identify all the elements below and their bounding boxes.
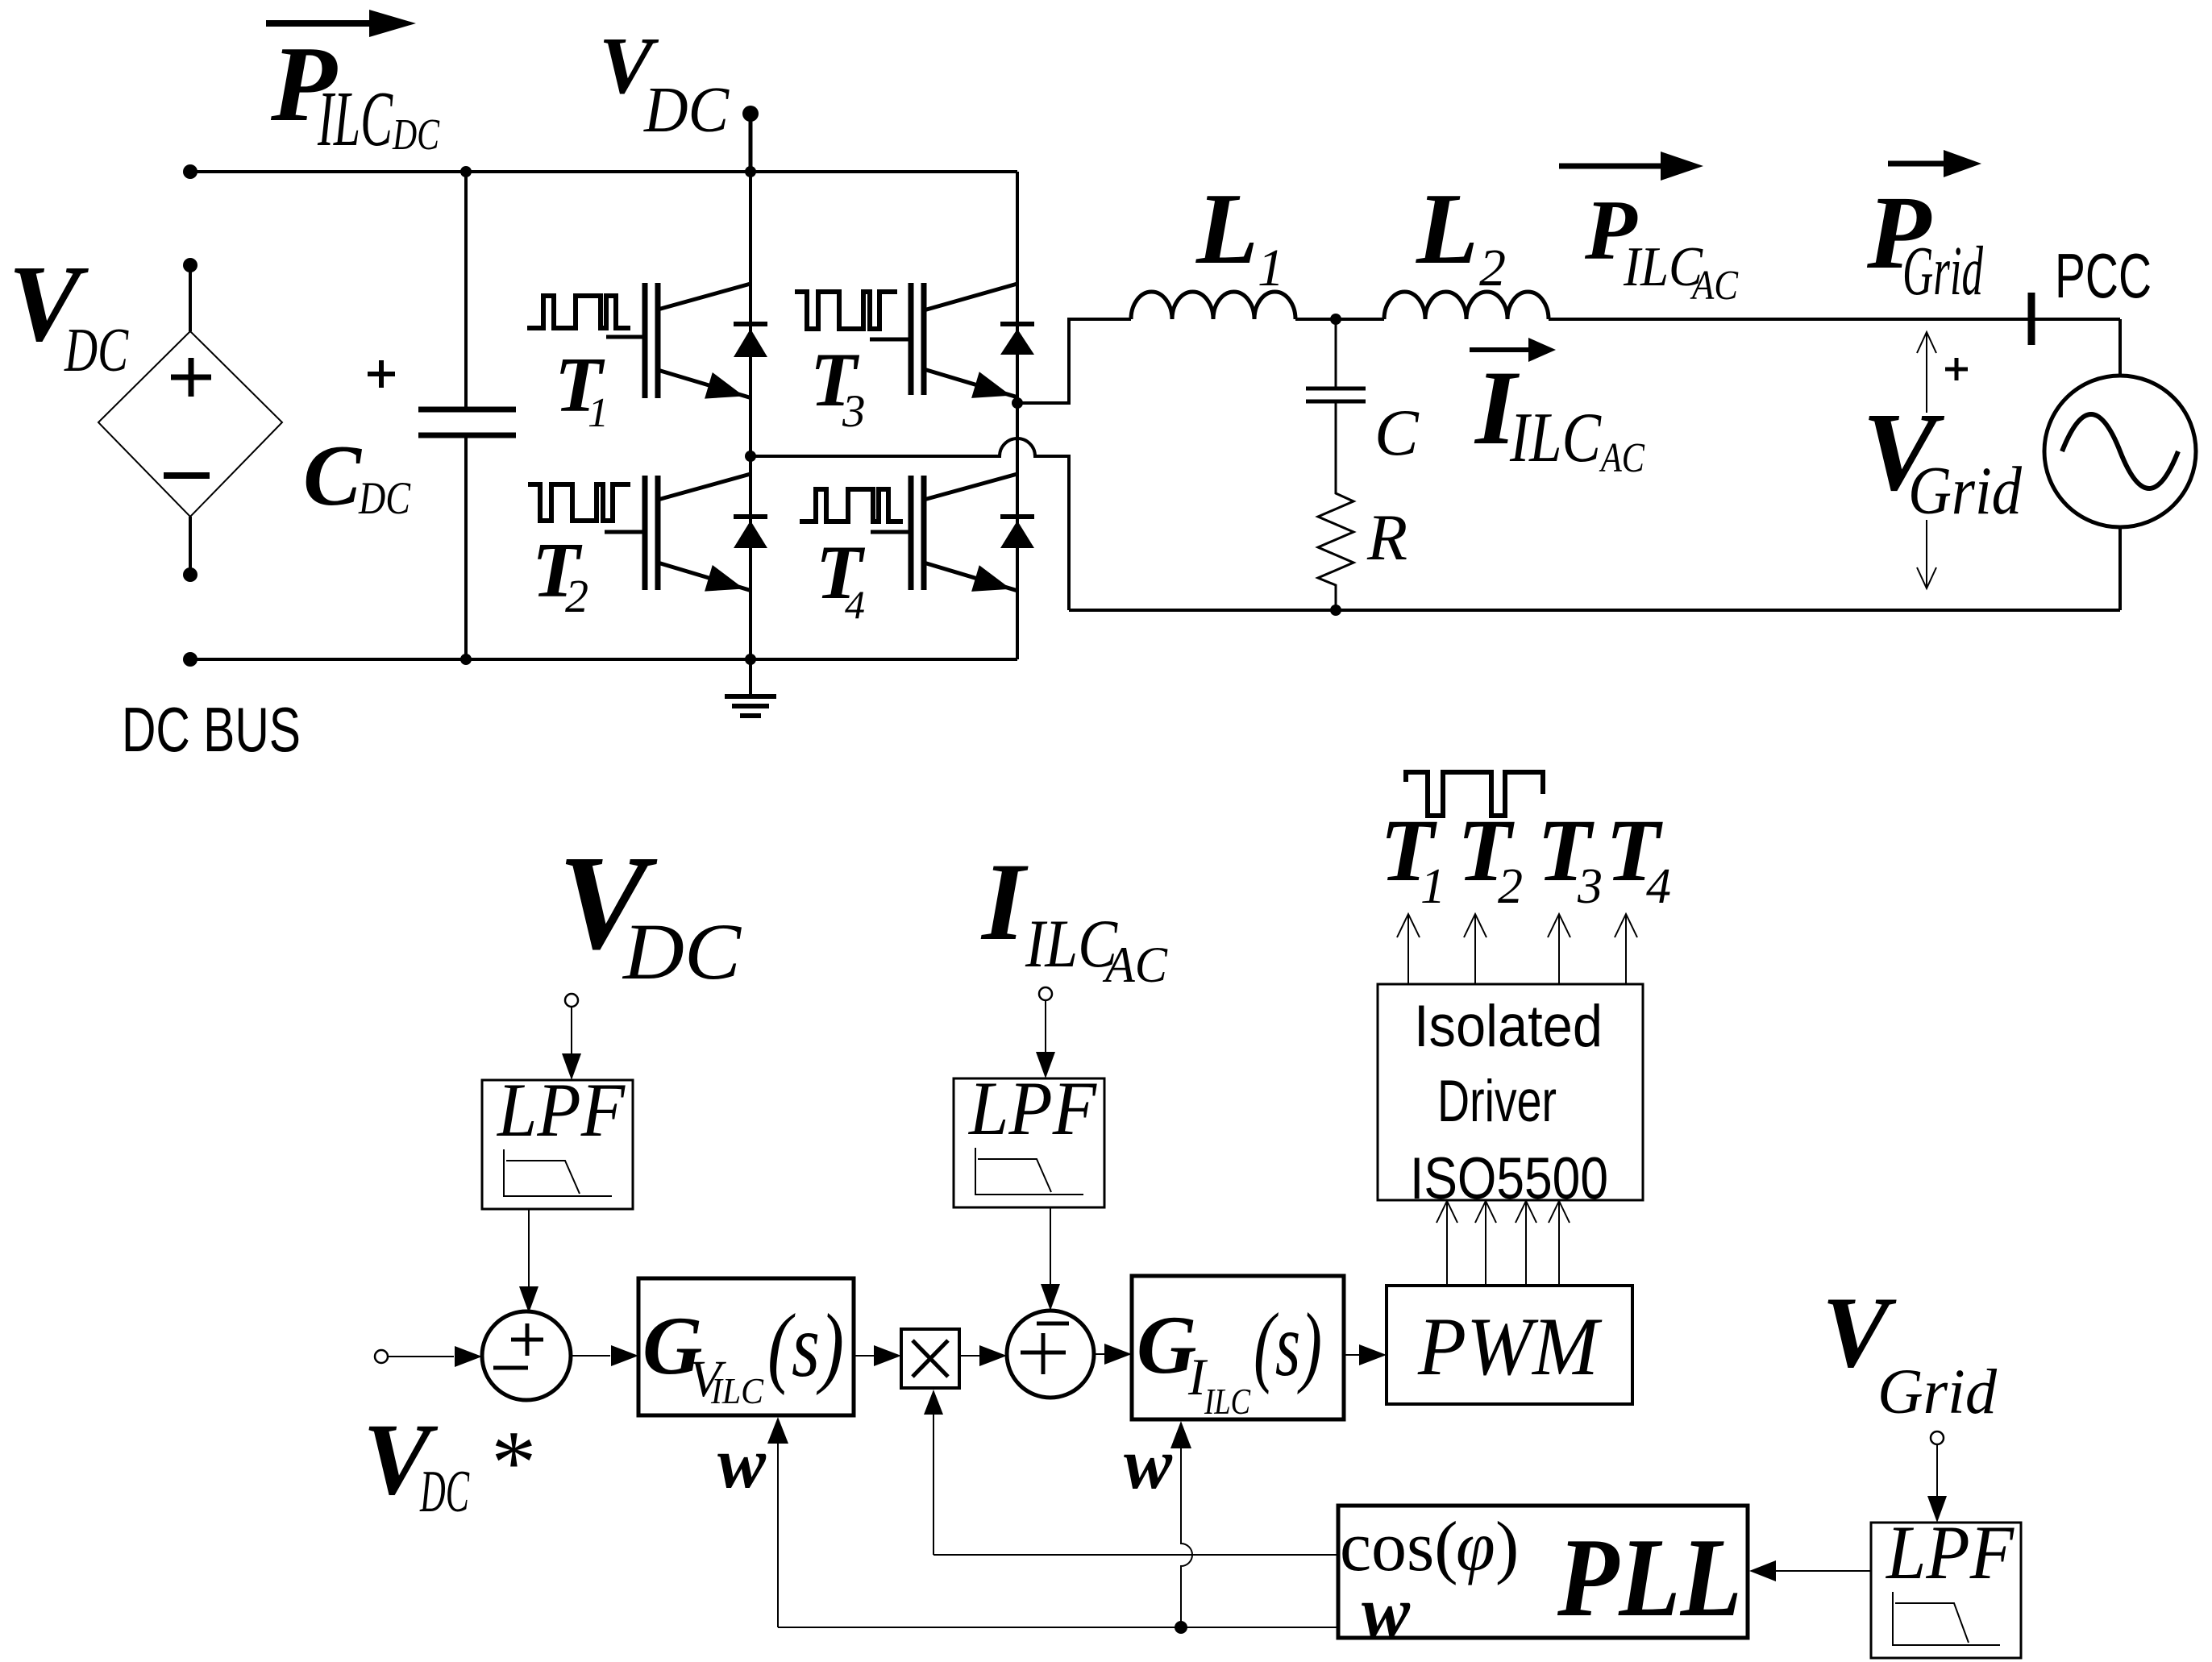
block PWM [1387,1286,1632,1404]
wire sum1 to G_VILC [571,1355,610,1357]
multiplier block (X) [901,1329,959,1388]
svg-text:ISO5500: ISO5500 [1410,1146,1608,1211]
gate pulse icon T1 [527,296,630,328]
svg-text:AC: AC [1599,435,1646,481]
svg-text:w: w [717,1423,767,1503]
svg-text:4: 4 [845,582,865,627]
svg-text:Driver: Driver [1437,1069,1557,1134]
svg-text:DC: DC [358,473,411,524]
svg-text:DC BUS: DC BUS [122,694,301,765]
svg-text:R: R [1366,501,1407,574]
I_ILC_AC arrow [1470,347,1532,352]
ground symbol [749,659,752,696]
wire bottom AC rail [1069,609,2120,612]
svg-text:Isolated: Isolated [1414,994,1603,1059]
inductor L2 [1384,292,1549,319]
svg-text:PWM: PWM [1417,1301,1603,1393]
svg-text:Grid: Grid [1877,1357,1997,1427]
diode D2 (T2 freewheel) [734,514,767,519]
wire w into G_VILC [777,1443,779,1627]
inductor L1 [1131,292,1295,319]
gate pulse icon T4 [800,489,903,521]
wire LPF2 to sum2 [1050,1207,1051,1296]
svg-text:2: 2 [565,570,588,622]
wire V_Grid sense to LPF3 [1936,1444,1938,1496]
gate pulse icon T3 [795,292,897,329]
resistor R (damping) [1318,485,1353,610]
svg-text:Grid: Grid [1908,453,2022,529]
node V_DC terminal [742,106,759,122]
svg-text:LPF: LPF [496,1067,626,1153]
node V_DC sense terminal [565,994,578,1007]
svg-text:1: 1 [1420,859,1445,914]
node V_Grid sense terminal [1931,1431,1944,1444]
wire I sense to LPF2 [1045,1000,1046,1053]
label + (C_DC polarity) [368,372,395,376]
gate pulse icon (driver output) [1406,772,1543,816]
svg-text:(s): (s) [1254,1295,1322,1395]
diode D3 (T3 freewheel) [1000,322,1034,326]
summing junction S2 [1007,1311,1094,1398]
svg-text:DC: DC [64,315,129,384]
wire bridge output bottom with hop over right leg [750,438,1069,610]
svg-text:Grid: Grid [1902,231,1983,310]
svg-text:3: 3 [842,386,866,437]
node R bottom junction [1330,605,1341,616]
transistor T4 (IGBT) [871,530,911,534]
block LPF2 [954,1078,1104,1207]
wire grid return [2118,527,2122,610]
node w junction dot [1175,1621,1187,1634]
svg-text:LPF: LPF [1885,1510,2014,1595]
node bridge right leg midpoint [1012,397,1023,409]
svg-text:(s): (s) [767,1296,844,1396]
block LPF1 [482,1080,633,1209]
wire w into G_IILC with hop [1181,1448,1192,1627]
transistor T3 (IGBT) [870,338,911,342]
svg-text:I: I [980,840,1029,963]
wire G_VILC to multiplier [854,1355,875,1357]
svg-text:C: C [1374,396,1420,469]
wire grid drop [2118,319,2122,376]
svg-text:w: w [1362,1573,1411,1652]
transistor T2 (IGBT) [605,530,645,534]
block PLL [1338,1506,1748,1638]
svg-text:4: 4 [1646,859,1671,914]
svg-text:LPF: LPF [967,1066,1097,1151]
svg-text:L: L [1195,173,1258,285]
wire L2 to PCC [1549,318,2120,321]
svg-text:PLL: PLL [1557,1515,1742,1640]
wire V_DC sense to LPF1 [571,1007,572,1055]
svg-text:3: 3 [1577,859,1603,914]
svg-text:AC: AC [1690,263,1739,309]
wire LPF1 to sum1 [528,1209,530,1298]
diode D4 (T4 freewheel) [1000,514,1034,519]
svg-text:2: 2 [1498,859,1523,914]
gate pulse icon T2 [528,484,630,521]
wire G_IILC to PWM [1344,1354,1360,1356]
svg-text:DC: DC [643,73,730,146]
svg-text:DC: DC [392,110,440,159]
svg-text:ILC: ILC [1204,1381,1251,1422]
wire sum2 to G_IILC [1094,1353,1105,1355]
source V_Grid (AC source) [2044,376,2196,527]
wire multiplier to sum2 [959,1355,979,1357]
svg-text:L: L [1416,173,1478,285]
capacitor C_DC [464,172,468,409]
svg-text:): ) [1495,1508,1519,1586]
transistor T1 (IGBT) [606,335,645,339]
wire L1 to L2 [1295,318,1384,321]
svg-text:PCC: PCC [2055,240,2152,311]
wire cos output into multiplier [933,1413,934,1555]
block G_VILC(s) [638,1278,854,1415]
svg-text:ILC: ILC [710,1370,764,1411]
label + (V_Grid polarity) [1945,368,1968,372]
svg-text:AC: AC [1102,937,1168,993]
wire w feedback (PLL to G blocks) [778,1627,1338,1628]
svg-text:C: C [303,428,363,524]
wires driver outputs T1..T4 [1407,916,1409,984]
node C_DC bottom junction [460,654,472,665]
svg-text:ILC: ILC [317,76,393,163]
svg-text:*: * [487,1413,532,1513]
wire bottom DC rail [190,658,1017,661]
node V_DC* reference terminal [375,1350,388,1363]
wire bridge right leg [1016,172,1019,659]
wire top DC rail [190,170,1017,173]
svg-text:ILC: ILC [1025,906,1118,982]
diode D1 (T1 freewheel) [734,322,767,326]
node C_DC top junction [460,166,472,177]
summing junction S1 [482,1311,571,1400]
svg-text:1: 1 [1258,239,1284,297]
capacitor C (filter) [1335,319,1337,388]
block G_IILC(s) [1132,1276,1344,1419]
block LPF3 [1871,1523,2021,1658]
svg-text:1: 1 [588,390,609,436]
wire LPF3 to PLL [1775,1570,1871,1572]
node V_DC rail junction [745,166,756,177]
block Isolated Driver ISO5500 [1378,984,1643,1200]
node DC bus minus terminal [183,652,197,667]
wire bridge output top (to L1) [1017,319,1131,403]
wire bridge left leg [749,172,752,659]
node bridge ground junction [745,654,756,665]
node bridge left leg midpoint [745,451,756,462]
node DC bus plus terminal [183,164,197,179]
P_ILC_AC flow arrow [1559,164,1664,169]
P_Grid flow arrow [1888,161,1947,167]
PCC tick [2028,293,2035,345]
node I_ILC_AC sense terminal [1039,987,1052,1000]
wires PWM to driver (4 gate signals) [1446,1203,1448,1286]
node filter tap [1330,314,1341,325]
svg-text:φ: φ [1456,1508,1495,1586]
source V_DC (dependent diamond source) [183,258,197,272]
svg-text:DC: DC [419,1459,470,1525]
svg-text:ILC: ILC [1509,399,1602,477]
svg-text:DC: DC [622,907,742,996]
P_ILC_DC power-flow arrow [266,20,372,27]
wire cos(phi) feedback to multiplier [933,1554,1338,1556]
svg-text:2: 2 [1479,239,1506,297]
svg-text:w: w [1124,1424,1173,1504]
V_Grid measurement arrow (double) [1926,332,1927,413]
